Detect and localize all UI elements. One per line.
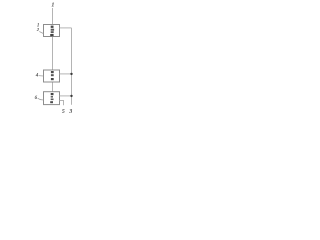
svg-text:4: 4 xyxy=(35,74,39,79)
svg-text:5: 5 xyxy=(62,109,65,115)
svg-text:1: 1 xyxy=(51,2,54,9)
svg-text:3: 3 xyxy=(68,109,72,115)
svg-text:6: 6 xyxy=(35,96,38,101)
